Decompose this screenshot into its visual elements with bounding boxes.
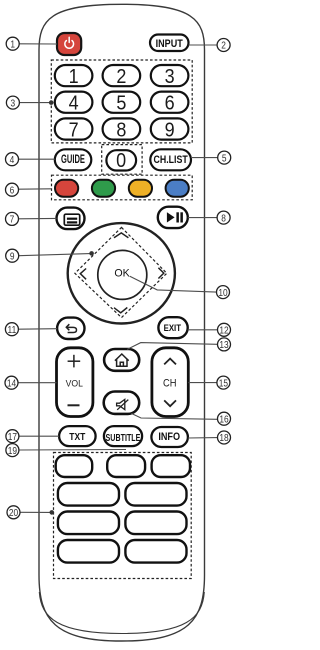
svg-text:3: 3 — [165, 66, 175, 88]
svg-text:GUIDE: GUIDE — [61, 153, 85, 166]
svg-text:CH: CH — [163, 378, 176, 390]
svg-text:TXT: TXT — [69, 431, 85, 442]
svg-text:4: 4 — [69, 93, 79, 115]
svg-text:5: 5 — [222, 153, 227, 164]
svg-text:16: 16 — [219, 414, 228, 425]
svg-text:6: 6 — [165, 93, 175, 115]
svg-text:12: 12 — [219, 325, 228, 336]
svg-text:5: 5 — [116, 93, 126, 115]
svg-text:4: 4 — [10, 154, 15, 165]
svg-text:EXIT: EXIT — [164, 322, 182, 333]
svg-text:11: 11 — [8, 324, 17, 335]
svg-text:2: 2 — [221, 40, 226, 51]
svg-text:8: 8 — [221, 213, 226, 224]
svg-text:INPUT: INPUT — [156, 38, 184, 50]
svg-text:7: 7 — [10, 214, 15, 225]
svg-text:9: 9 — [165, 119, 175, 141]
svg-text:14: 14 — [7, 378, 16, 389]
svg-text:0: 0 — [116, 150, 126, 172]
svg-text:7: 7 — [69, 119, 79, 141]
svg-text:1: 1 — [69, 66, 79, 88]
svg-text:13: 13 — [219, 339, 228, 350]
svg-text:19: 19 — [8, 445, 17, 456]
svg-text:17: 17 — [8, 431, 17, 442]
svg-text:CH.LIST: CH.LIST — [153, 154, 187, 166]
svg-text:8: 8 — [116, 119, 126, 141]
svg-text:15: 15 — [219, 378, 228, 389]
svg-text:3: 3 — [11, 98, 16, 109]
svg-text:6: 6 — [10, 185, 15, 196]
svg-text:INFO: INFO — [158, 431, 180, 443]
svg-text:20: 20 — [9, 507, 18, 518]
svg-text:9: 9 — [10, 251, 15, 262]
svg-text:OK: OK — [114, 267, 130, 279]
svg-text:VOL: VOL — [66, 378, 83, 388]
svg-text:18: 18 — [219, 432, 228, 443]
svg-text:1: 1 — [10, 39, 15, 50]
svg-text:10: 10 — [218, 287, 227, 298]
svg-text:SUBTITLE: SUBTITLE — [106, 431, 141, 443]
svg-text:2: 2 — [116, 66, 126, 88]
